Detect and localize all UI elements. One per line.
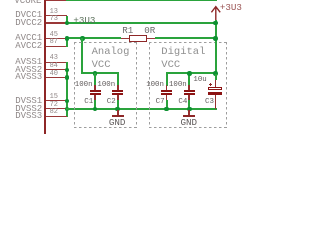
- wire R1 right to +3V3: [155, 37, 217, 39]
- capacitor C7: [166, 73, 168, 85]
- wire AVCC drop vertical: [81, 38, 83, 74]
- junction DVSS1: [65, 99, 70, 104]
- text VCC (analog): [92, 60, 111, 71]
- resistor R1: [129, 35, 147, 42]
- capacitor C1: [94, 73, 96, 85]
- pin AVSS1 43: [46, 62, 67, 63]
- dashed box Digital VCC: [149, 42, 226, 43]
- label 100n (C7): [146, 82, 164, 89]
- label R1: [122, 26, 133, 35]
- ground GND (analog): [117, 110, 119, 116]
- wire DVCC tie vertical: [66, 16, 68, 25]
- junction +3V3 / digital rail: [213, 71, 218, 76]
- resistor R1 right pin: [147, 38, 155, 39]
- label 10u (C3): [193, 77, 206, 84]
- junction DVSS2 (rail start): [65, 107, 70, 112]
- capacitor C2: [117, 73, 119, 85]
- wire VCORE net (top edge): [66, 0, 217, 1]
- dashed box Analog VCC: [74, 42, 137, 43]
- text Digital: [161, 47, 205, 58]
- capacitor C4: [188, 73, 190, 85]
- label 0R: [144, 26, 155, 35]
- pin DVSS2 72: [46, 108, 67, 109]
- wire VSS tie vertical (AVSS1 to DVSS3): [66, 62, 68, 117]
- wire AVCC horizontal to R1: [66, 37, 121, 39]
- pin AVCC1 45: [46, 38, 67, 39]
- wire +3V3 horizontal (DVCC to supply): [66, 22, 216, 24]
- resistor R1 left pin: [121, 38, 129, 39]
- label 100n (C4): [169, 82, 187, 89]
- ground GND (digital): [188, 110, 190, 116]
- junction AVCC: [65, 36, 70, 41]
- pin AVSS2 84: [46, 69, 67, 70]
- junction C4 bottom: [187, 107, 192, 112]
- wire GND bottom rail: [66, 108, 216, 110]
- label 100n (C2): [97, 82, 115, 89]
- wire AVCC tie vertical: [66, 38, 68, 47]
- junction C1 top: [93, 71, 98, 76]
- junction C4 top: [187, 71, 192, 76]
- pin VCORE (cut off at top): [46, 0, 67, 1]
- junction DVCC: [65, 21, 70, 26]
- label C7: [156, 99, 165, 107]
- label C2: [107, 99, 116, 107]
- pin DVCC1 13: [46, 15, 67, 16]
- pin DVSS3 82: [46, 116, 67, 117]
- label +3U3 (net): [73, 16, 95, 25]
- pin AVCC2 87: [46, 46, 67, 47]
- junction AVSS2: [65, 68, 70, 73]
- junction C2 bottom: [115, 107, 120, 112]
- pin DVCC2 73: [46, 22, 67, 23]
- wire +3V3 vertical: [215, 20, 217, 74]
- junction AVSS3: [65, 75, 70, 80]
- junction C7 bottom: [164, 107, 169, 112]
- wire analog top rail: [81, 72, 118, 74]
- junction +3V3 / R1 wire: [213, 36, 218, 41]
- label C4: [178, 99, 187, 107]
- text VCC (digital): [161, 60, 180, 71]
- label +3U3 (supply): [220, 3, 242, 12]
- pin AVSS3 40: [46, 77, 67, 78]
- polarity + mark (C3): [209, 84, 212, 85]
- junction C1 bottom: [93, 107, 98, 112]
- junction AVCC drop: [80, 36, 85, 41]
- text Analog: [92, 47, 130, 58]
- capacitor C3 (polarized 10u): [215, 74, 217, 80]
- label 100n (C1): [75, 82, 93, 89]
- label C3: [205, 99, 214, 107]
- junction +3V3 / DVCC wire: [213, 21, 218, 26]
- pin DVSS1 15: [46, 100, 67, 101]
- label C1: [84, 99, 93, 107]
- op-amp U1 body edge (IC right border): [44, 0, 46, 134]
- wire digital top rail: [166, 72, 217, 74]
- supply +3V3 arrow symbol: [208, 4, 224, 22]
